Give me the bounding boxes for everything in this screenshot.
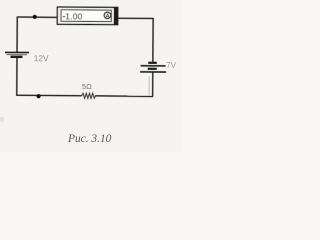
battery V1 12V long plate (5, 51, 29, 53)
wire bottom left segment (16, 94, 82, 97)
wire ghost artifact (148, 76, 150, 95)
battery V1 short plate (10, 56, 22, 58)
resistor R1 zigzag (82, 93, 96, 98)
wire right vertical lower (152, 72, 154, 96)
ammeter U1 outer body (57, 7, 118, 25)
ammeter U1 display window (61, 10, 111, 22)
ammeter reading minus tick (63, 16, 65, 17)
wire bottom right segment (95, 95, 153, 98)
battery V2 short plate lower (148, 68, 157, 70)
scan smudge left edge (0, 117, 4, 122)
ammeter U1 dark terminal bar (114, 7, 118, 24)
battery V1 ghost line (7, 54, 27, 56)
battery V2 7V long plate bottom (140, 71, 166, 73)
battery V2 short plate top (148, 62, 156, 64)
wire right vertical upper (152, 18, 154, 62)
svg-text:1.00: 1.00 (65, 11, 82, 21)
wire top-left segment (17, 16, 58, 18)
wire top-right segment (118, 17, 154, 19)
wire left vertical lower (16, 58, 18, 96)
node junction dot top (33, 15, 37, 19)
svg-text:12V: 12V (34, 53, 49, 63)
battery V2 long plate upper (141, 65, 166, 67)
svg-text:7V: 7V (166, 61, 177, 70)
svg-text:Рис. 3.10: Рис. 3.10 (67, 133, 112, 145)
wire left vertical upper (16, 17, 18, 53)
svg-text:5Ω: 5Ω (82, 82, 92, 91)
node junction dot bottom (36, 94, 40, 98)
paper background (0, 0, 181, 152)
ammeter unit circle (104, 12, 111, 19)
svg-text:A: A (106, 14, 110, 20)
